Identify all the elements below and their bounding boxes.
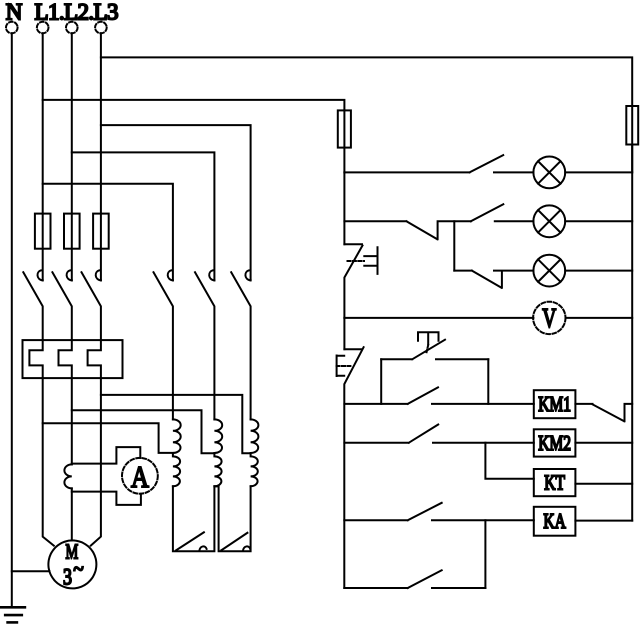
FR heater phase 2 [59,340,72,378]
FR heater phase 1 [29,340,42,378]
FR heater phase 3 [88,340,101,378]
voltmeter row wire [344,317,533,319]
wire L3 to right rail top [101,57,632,106]
autotransformer coil 1 [173,419,181,486]
left control rail upper [343,172,345,244]
control fuse FU4 (left) [338,110,351,172]
lamp row 1 wire and KM1 aux contact [344,155,533,172]
contactor coil KM2 [534,429,632,456]
wire L1 tap to coil1 branch [43,184,173,281]
KM2 interlock NC contact right of KM1 [575,404,632,421]
autotransformer coil 3 [251,419,259,486]
right rail [631,145,633,521]
terminal N [6,22,18,34]
wire phase2 to motor [71,378,73,540]
thermal overload relay FR box [23,340,123,378]
terminal L1 [37,22,49,34]
contactor KM2 main pole 2 [195,270,214,419]
lamp HL2 [533,205,632,237]
fuse FU2 [64,214,80,281]
wire phase1 tap to coil1 mid [43,423,173,453]
wire L2 tap to coil2 branch [72,152,215,280]
wire phase3 tap to coil3 mid [101,395,251,453]
relay coil KA [534,507,632,536]
KA coil row with KA contact [344,503,534,521]
wire L3 vertical [100,33,102,213]
fuse FU3 [93,214,109,281]
lamp HL1 [533,157,632,189]
motor M 3~ [48,540,96,590]
terminal L2 [66,22,78,34]
left control rail middle [343,318,345,349]
switch QS pole 1 [23,270,42,340]
fuse FU1 [35,214,51,281]
svg-text:V: V [542,304,556,334]
svg-text:N: N [6,0,23,25]
autotransformer coil 2 [214,419,222,486]
start loop left vertical [380,359,382,404]
ground [1,607,25,622]
svg-text:KT: KT [544,471,565,494]
star connection U2 with KM1 contact [214,486,250,551]
wire L1 to control fuse [43,100,345,111]
svg-text:KM1: KM1 [538,393,571,416]
wire N to motor [12,570,50,572]
start button SB2 [381,332,488,359]
wire L1 vertical [42,33,44,213]
voltmeter V [533,302,632,334]
wire KA row to bottom row vertical [484,520,486,588]
wire L3 tap to coil3 branch [101,125,251,280]
KM2 coil row with KT contact [344,425,533,443]
node L1 L2 L3 labels [35,0,118,25]
control fuse FU5 (right) [626,106,638,172]
wire L2 vertical [71,33,73,213]
contactor KM2 main pole 3 [231,270,250,419]
switch QS pole 3 [82,270,101,340]
svg-text:L1.L2.L3: L1.L2.L3 [35,0,118,25]
svg-text:KM2: KM2 [538,432,571,455]
current transformer on phase2 [64,464,71,488]
svg-text:~: ~ [73,558,83,581]
lamp HL3 [533,255,632,287]
wire N vertical [11,33,13,607]
wire phase3 to motor [91,378,101,545]
terminal L3 [95,22,107,34]
wire phase1 to motor [43,378,54,545]
lamp row 3 wire with NC contact [454,271,533,288]
breaker aux contact QF [344,244,377,318]
wire row2 to row3 vertical [453,221,455,270]
svg-text:KA: KA [543,510,566,533]
svg-text:A: A [131,461,150,495]
switch QS pole 2 [52,270,71,340]
wire phase2 tap to coil2 mid [72,410,215,453]
bottom row wire with contact [344,570,485,588]
time relay coil KT [534,469,632,496]
star connection U1 with KM1 contact [173,486,215,551]
svg-text:3: 3 [63,566,72,591]
wire CT to ammeter bottom [72,492,141,505]
contactor KM2 main pole 1 [154,270,173,419]
contactor coil KM1 [534,390,576,418]
wire CT to ammeter top [72,447,141,464]
wire KM2 row to KT coil [485,443,533,479]
stop button SB1 [337,347,364,588]
lamp row 2 wire with NC contact [344,204,533,239]
node N label [6,0,23,25]
KM1 coil row with self-hold contact [344,387,533,404]
ammeter A [122,458,158,495]
start loop right vertical [487,359,489,404]
